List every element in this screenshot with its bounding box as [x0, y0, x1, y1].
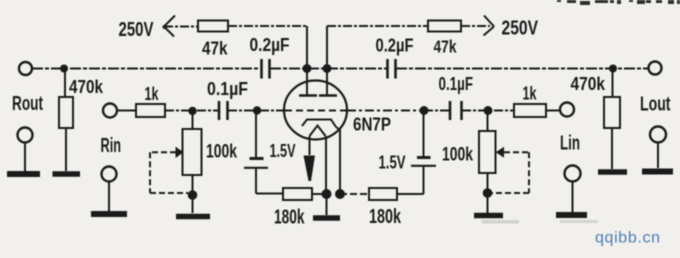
svg-text:qqibb.cn: qqibb.cn — [595, 230, 660, 247]
svg-text:47k: 47k — [202, 38, 228, 58]
svg-text:470k: 470k — [571, 74, 606, 94]
svg-text:250V: 250V — [119, 19, 154, 41]
svg-text:1.5V: 1.5V — [379, 151, 406, 172]
svg-text:0.2µF: 0.2µF — [250, 34, 290, 55]
svg-text:1k: 1k — [145, 83, 159, 104]
svg-text:1.5V: 1.5V — [270, 140, 296, 161]
svg-text:Lin: Lin — [560, 133, 580, 155]
svg-text:180k: 180k — [274, 206, 305, 228]
svg-text:180k: 180k — [369, 206, 402, 228]
svg-text:0.1µF: 0.1µF — [439, 74, 474, 94]
svg-text:100k: 100k — [206, 141, 237, 163]
svg-text:1k: 1k — [523, 83, 537, 104]
svg-text:250V: 250V — [502, 18, 539, 40]
svg-text:0.2µF: 0.2µF — [376, 34, 414, 55]
svg-text:6N7P: 6N7P — [353, 114, 391, 135]
svg-text:47k: 47k — [434, 36, 457, 56]
svg-text:Rin: Rin — [101, 135, 122, 157]
svg-text:Rout: Rout — [12, 93, 43, 115]
svg-text:470k: 470k — [69, 77, 104, 97]
svg-text:Lout: Lout — [640, 93, 671, 115]
svg-text:0.1µF: 0.1µF — [207, 79, 248, 99]
svg-text:100k: 100k — [442, 145, 473, 166]
